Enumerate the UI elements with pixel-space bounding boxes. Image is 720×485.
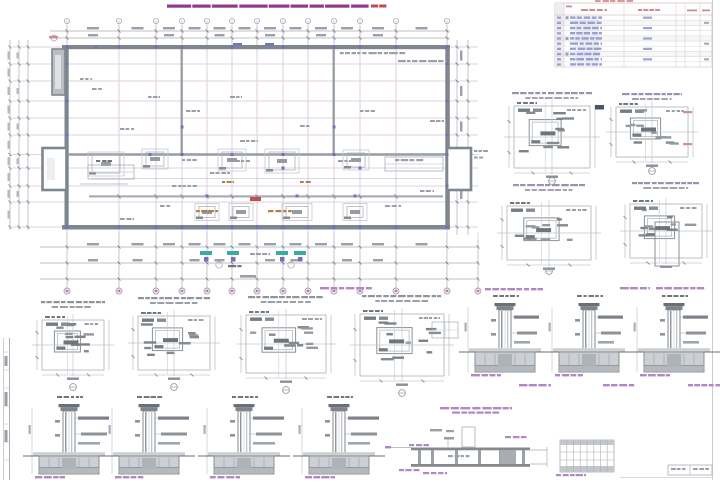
entrance ramp right interior [385, 157, 443, 171]
detail F1 plan drawing [42, 320, 104, 370]
detail T3 column shaft [238, 411, 250, 456]
detail S5 violet labels [471, 374, 480, 376]
detail S7 column cap [664, 303, 685, 306]
detail S5 title [493, 295, 498, 297]
detail S7 ground level strip [638, 348, 710, 352]
bottom frame line right [620, 477, 712, 479]
detail S6 title [577, 295, 582, 297]
detail A (node 1) drawing [514, 106, 590, 168]
dimension lines right of plan [456, 40, 458, 235]
detail T1 title [57, 396, 62, 398]
detail T4 column cap [329, 404, 350, 407]
dim text right of right protrusion [474, 150, 478, 152]
beam detail title (violet) [440, 407, 449, 409]
detail F2 plan title [138, 297, 144, 299]
detail T3 column cap [234, 404, 255, 407]
detail T3 base slab [214, 456, 274, 474]
foundation pit P3 [218, 149, 246, 171]
detail D (node 4) drawing [630, 204, 702, 258]
detail F2 plan drawing [138, 316, 210, 370]
dimension extension lines top [66, 26, 68, 45]
plan outer wall left [65, 45, 69, 230]
detail S7 column shaft [668, 310, 680, 352]
detail S6 base slab [559, 352, 619, 372]
foundation pit P5 [343, 150, 369, 170]
detail S7 title [662, 295, 666, 297]
foundation pit P6 [195, 204, 219, 221]
dimension lines below plan [40, 246, 478, 248]
detail F1 plan title [41, 301, 45, 303]
detail T2 ground level strip [113, 452, 185, 456]
detail B (node 2) title [622, 93, 630, 95]
rebar schedule small table [560, 440, 614, 472]
detail T4 base slab [309, 456, 369, 474]
section cut symbols below plan [200, 251, 212, 255]
detail S5 column shaft [499, 310, 511, 352]
plan grid horizontal axis lines [12, 46, 478, 48]
wall protrusion top-left [52, 49, 65, 95]
grid bubbles top [64, 18, 69, 23]
foundation pit P-left [88, 152, 124, 176]
detail F4 side schedule [432, 322, 458, 338]
detail S6 violet labels [555, 374, 560, 376]
detail T2 violet labels [115, 476, 122, 478]
detail T2 column shaft [143, 411, 155, 456]
detail T4 column shaft [333, 411, 345, 456]
interior stair detail left [88, 165, 134, 179]
detail T4 violet labels [305, 476, 312, 478]
beam detail labels [505, 436, 511, 438]
detail F3 plan drawing [246, 315, 326, 373]
column markers on walls (purple) [66, 46, 69, 49]
detail S7 violet labels [640, 374, 647, 376]
detail S5 ground level strip [469, 348, 541, 352]
sheet bottom-left stamp strip [3, 338, 5, 480]
detail F4 plan title [362, 295, 367, 297]
foundation pit P4 [265, 149, 299, 173]
detail T3 title [232, 396, 236, 398]
foundation pit P7 [229, 204, 253, 221]
detail T4 ground level strip [303, 452, 375, 456]
foundation pit P8 [282, 204, 312, 221]
detail T1 violet labels [35, 476, 42, 478]
plan grid vertical axis lines [66, 20, 68, 291]
violet label under mini table [556, 474, 561, 476]
foundation pit P9 [343, 204, 367, 221]
detail D (node 4) title [632, 182, 637, 184]
violet notes above right sections [620, 287, 629, 289]
wall protrusion right-middle [447, 148, 471, 190]
detail S6 ground level strip [553, 348, 625, 352]
beam detail drawing [411, 448, 530, 451]
grid bubbles bottom [64, 288, 70, 294]
dimension lines left of plan [9, 40, 11, 230]
detail S7 base slab [644, 352, 704, 372]
detail F4 plan drawing [360, 314, 444, 376]
detail T3 violet labels [210, 476, 216, 478]
sheet title (magenta) [167, 5, 191, 8]
dim arrow blob left of detail B [595, 105, 604, 110]
foundation pit P2 [142, 149, 168, 169]
plan outer wall right [445, 45, 450, 230]
wall protrusion left-middle [43, 148, 67, 190]
detail S5 base slab [475, 352, 535, 372]
detail B (node 2) drawing [616, 107, 688, 157]
small red detail mark top-left [51, 35, 57, 41]
beam infill panel [500, 450, 516, 464]
detail T1 base slab [39, 456, 99, 474]
interior wall vertical 1 [181, 49, 183, 155]
detail T1 column cap [59, 404, 80, 407]
specification table top-right [595, 0, 601, 2]
detail D column extension [655, 222, 679, 266]
blue section labels above top wall [233, 43, 242, 46]
interior wall vertical 2 [333, 49, 335, 155]
plan outer wall top [62, 45, 450, 49]
plan outer wall bottom [62, 225, 450, 230]
detail F3 plan title [248, 296, 255, 298]
detail T2 base slab [119, 456, 179, 474]
interior dimension chain line [89, 195, 443, 197]
bottom-right corner block [668, 465, 712, 475]
sheet right border frame [712, 0, 714, 480]
detail S6 column shaft [583, 310, 595, 352]
detail C (node 3) drawing [507, 206, 591, 260]
red annotations detail B [683, 111, 692, 113]
detail A (node 1) title [512, 92, 519, 94]
detail S5 column cap [495, 303, 516, 306]
interior wall horizontal [68, 153, 446, 156]
detail T2 title [137, 396, 142, 398]
interior annotation text [340, 52, 344, 54]
interior dimension line 2 [92, 178, 443, 180]
detail T1 ground level strip [33, 452, 105, 456]
detail C (node 3) title [513, 184, 519, 186]
dimension lines above plan [50, 30, 450, 32]
detail T2 column cap [139, 404, 160, 407]
detail S6 column cap [579, 303, 600, 306]
detail T3 ground level strip [208, 452, 280, 456]
detail T4 title [327, 396, 332, 398]
detail T1 column shaft [63, 411, 75, 456]
